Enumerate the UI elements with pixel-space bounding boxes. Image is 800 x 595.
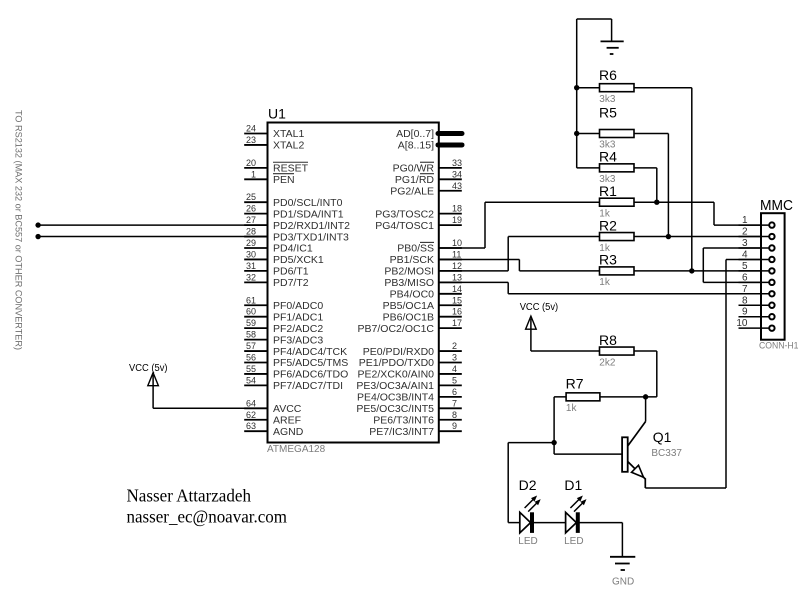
pin 55 PF6/ADC6/TDO (left): [244, 364, 348, 381]
svg-text:1k: 1k: [566, 403, 578, 414]
svg-text:AD[0..7]: AD[0..7]: [396, 128, 434, 140]
resistor R4 3k3: [599, 149, 634, 185]
wire D2 cathode to D1 anode: [533, 522, 566, 524]
svg-text:XTAL1: XTAL1: [273, 128, 304, 140]
wire R5 right to MMC pin2 net: [634, 134, 668, 237]
MMC pin 3: [739, 238, 775, 251]
svg-text:R2: R2: [599, 217, 617, 233]
svg-text:34: 34: [452, 169, 462, 179]
svg-text:10: 10: [736, 318, 748, 329]
svg-text:LED: LED: [518, 536, 537, 547]
svg-text:PF1/ADC1: PF1/ADC1: [273, 311, 323, 323]
wire: pin28 PD3 long wire to left: [38, 236, 267, 238]
svg-text:54: 54: [246, 375, 256, 385]
svg-text:28: 28: [246, 227, 256, 237]
svg-text:PG2/ALE: PG2/ALE: [390, 185, 434, 197]
pin 61 PF0/ADC0 (left): [244, 295, 323, 312]
svg-text:3: 3: [452, 353, 457, 363]
MMC pin 9: [739, 307, 775, 320]
resistor R8 2k2: [599, 332, 634, 368]
svg-text:26: 26: [246, 204, 256, 214]
svg-text:59: 59: [246, 318, 256, 328]
junction: open end PD2 wire: [35, 222, 40, 227]
pin 25 PD0/SCL/INT0 (left): [244, 192, 342, 209]
MMC pin 4: [739, 249, 775, 262]
svg-text:PF0/ADC0: PF0/ADC0: [273, 300, 323, 312]
junction: collector node R7/R8/Q1: [643, 394, 648, 399]
power VCC (5v) right: [520, 302, 559, 351]
svg-text:27: 27: [246, 215, 256, 225]
svg-text:PB4/OC0: PB4/OC0: [390, 289, 435, 301]
svg-text:2: 2: [742, 227, 748, 238]
resistor R7 1k: [566, 376, 600, 414]
pin 2 PE0/PDI/RXD0 (right): [363, 341, 462, 358]
wire R3 right to MMC pin5: [634, 270, 761, 272]
svg-text:PEN: PEN: [273, 174, 295, 186]
svg-text:PD4/IC1: PD4/IC1: [273, 243, 313, 255]
LED D2: [518, 477, 540, 547]
pin 15 PB5/OC1A (right): [383, 295, 462, 312]
wire AVCC to VCC: [153, 407, 267, 409]
pin 9 PE7/IC3/INT7 (right): [369, 421, 462, 438]
wire PB1/SCK to R3: [439, 259, 600, 270]
svg-text:61: 61: [246, 295, 256, 305]
svg-text:PE0/PDI/RXD0: PE0/PDI/RXD0: [363, 346, 434, 358]
pin 23 XTAL2 (left): [244, 135, 304, 152]
pin 33 PG0/WR (right): [393, 158, 462, 175]
wire: pin27 PD2 long wire to left: [38, 224, 267, 226]
svg-text:2: 2: [452, 341, 457, 351]
svg-text:PE2/XCK0/AIN0: PE2/XCK0/AIN0: [358, 369, 435, 381]
ground GND (bottom): [610, 557, 635, 588]
svg-text:R1: R1: [599, 183, 617, 199]
svg-text:9: 9: [742, 307, 748, 318]
svg-text:16: 16: [452, 307, 462, 317]
svg-text:Nasser Attarzadeh: Nasser Attarzadeh: [127, 486, 252, 506]
svg-text:PF4/ADC4/TCK: PF4/ADC4/TCK: [273, 346, 347, 358]
pin 11 PB1/SCK (right): [390, 249, 462, 266]
svg-text:PE4/OC3B/INT4: PE4/OC3B/INT4: [357, 392, 434, 404]
wire PB3/MISO to MMC pin7: [439, 282, 761, 293]
svg-text:PD7/T2: PD7/T2: [273, 277, 309, 289]
svg-text:AREF: AREF: [273, 414, 301, 426]
pin 27 PD2/RXD1/INT2 (left): [244, 215, 350, 232]
svg-text:60: 60: [246, 307, 256, 317]
svg-text:64: 64: [246, 398, 256, 408]
svg-text:VCC (5v): VCC (5v): [520, 302, 559, 313]
resistor R5 3k3: [599, 105, 634, 151]
svg-text:62: 62: [246, 410, 256, 420]
pin 56 PF5/ADC5/TMS (left): [244, 353, 348, 370]
svg-text:55: 55: [246, 364, 256, 374]
svg-text:15: 15: [452, 295, 462, 305]
wire MMC pin3 to pin6: [703, 248, 761, 282]
svg-text:R7: R7: [566, 376, 584, 392]
svg-text:58: 58: [246, 330, 256, 340]
pin 64 AVCC (left): [244, 398, 302, 415]
wire R7 left down to base: [554, 397, 622, 454]
resistor R3 1k: [599, 252, 634, 288]
pin 5 PE3/OC3A/AIN1 (right): [356, 375, 461, 392]
wire R6 right to MMC pin5 net: [634, 88, 692, 271]
svg-text:R3: R3: [599, 252, 617, 268]
wire R5 left: [577, 133, 600, 135]
svg-text:1: 1: [251, 169, 256, 179]
bus AD[0..7]: [396, 128, 462, 140]
svg-text:nasser_ec@noavar.com: nasser_ec@noavar.com: [127, 507, 288, 527]
svg-text:56: 56: [246, 353, 256, 363]
text author email: [127, 507, 288, 527]
svg-text:5: 5: [452, 375, 457, 385]
pin 63 AGND (left): [244, 421, 304, 438]
MMC pin 10: [736, 318, 774, 331]
bus A[8..15]: [398, 140, 462, 152]
pin 17 PB7/OC2/OC1C (right): [358, 318, 462, 335]
svg-text:R4: R4: [599, 149, 617, 165]
svg-text:32: 32: [246, 272, 256, 282]
svg-text:29: 29: [246, 238, 256, 248]
svg-text:30: 30: [246, 249, 256, 259]
svg-text:18: 18: [452, 204, 462, 214]
svg-text:VCC (5v): VCC (5v): [129, 363, 168, 374]
svg-text:CONN-H1: CONN-H1: [759, 341, 799, 352]
svg-text:14: 14: [452, 284, 462, 294]
svg-text:PE3/OC3A/AIN1: PE3/OC3A/AIN1: [356, 380, 434, 392]
wire R1 right to MMC pin1: [634, 202, 761, 225]
svg-text:4: 4: [452, 364, 457, 374]
junction: open end PD3 wire: [35, 234, 40, 239]
svg-text:8: 8: [452, 410, 457, 420]
wire D1 cathode to ground: [578, 523, 622, 557]
svg-text:3: 3: [742, 238, 748, 249]
svg-text:10: 10: [452, 238, 462, 248]
net label: TO RS2132 vertical text: [13, 110, 24, 350]
junction: GND net / R6: [574, 85, 579, 90]
svg-text:20: 20: [246, 158, 256, 168]
MMC pin 1: [739, 215, 775, 228]
svg-text:XTAL2: XTAL2: [273, 140, 304, 152]
svg-text:33: 33: [452, 158, 462, 168]
svg-text:3k3: 3k3: [599, 94, 616, 105]
pin 13 PB3/MISO (right): [384, 272, 462, 289]
svg-text:R8: R8: [599, 332, 617, 348]
pin 6 PE4/OC3B/INT4 (right): [357, 387, 462, 404]
svg-text:MMC: MMC: [760, 198, 793, 214]
svg-text:PF3/ADC3: PF3/ADC3: [273, 334, 323, 346]
junction: base/LED branch node: [551, 440, 556, 445]
resistor R6 3k3: [599, 67, 634, 105]
svg-text:U1: U1: [268, 106, 286, 122]
svg-text:PE6/T3/INT6: PE6/T3/INT6: [373, 414, 434, 426]
IC U1 ATMEGA128 box: [267, 106, 439, 456]
pin 20 RESET (left): [244, 158, 308, 175]
wire R4 right to R1 net: [634, 168, 657, 202]
svg-text:GND: GND: [612, 577, 634, 588]
svg-text:13: 13: [452, 272, 462, 282]
pin 43 PG2/ALE (right): [390, 181, 462, 198]
svg-text:1k: 1k: [599, 277, 611, 288]
svg-text:PD0/SCL/INT0: PD0/SCL/INT0: [273, 197, 343, 209]
pin 54 PF7/ADC7/TDI (left): [244, 375, 343, 392]
svg-text:5: 5: [742, 261, 748, 272]
svg-text:6: 6: [742, 272, 748, 283]
pin 19 PG4/TOSC1 (right): [375, 215, 462, 232]
pin 28 PD3/TXD1/INT3 (left): [244, 227, 349, 244]
svg-text:PE5/OC3C/INT5: PE5/OC3C/INT5: [356, 403, 434, 415]
pin 1 PEN (left): [244, 169, 294, 186]
LED D1: [564, 477, 586, 547]
svg-text:12: 12: [452, 261, 462, 271]
wire branch to D2 anode: [508, 443, 554, 523]
svg-text:8: 8: [742, 295, 748, 306]
svg-text:7: 7: [452, 398, 457, 408]
pin 4 PE2/XCK0/AIN0 (right): [358, 364, 462, 381]
svg-text:PD2/RXD1/INT2: PD2/RXD1/INT2: [273, 220, 350, 232]
svg-text:4: 4: [742, 249, 748, 260]
svg-text:LED: LED: [564, 536, 583, 547]
MMC pin 5: [739, 261, 775, 274]
svg-text:PB5/OC1A: PB5/OC1A: [383, 300, 434, 312]
svg-text:D2: D2: [519, 477, 537, 493]
MMC pin 8: [739, 295, 775, 308]
pin 7 PE5/OC3C/INT5 (right): [356, 398, 461, 415]
power VCC (5v) left at AVCC: [129, 363, 168, 408]
svg-text:31: 31: [246, 261, 256, 271]
connector MMC CONN-H1 box: [759, 198, 799, 352]
wire pullup common vertical: [576, 19, 578, 168]
pin 32 PD7/T2 (left): [244, 272, 309, 289]
svg-text:24: 24: [246, 124, 256, 134]
pin 16 PB6/OC1B (right): [383, 307, 462, 324]
svg-text:57: 57: [246, 341, 256, 351]
svg-text:43: 43: [452, 181, 462, 191]
junction: R6/R3 node: [689, 268, 694, 273]
svg-text:Q1: Q1: [653, 429, 672, 445]
pin 3 PE1/PDO/TXD0 (right): [359, 353, 462, 370]
svg-text:PB3/MISO: PB3/MISO: [384, 277, 434, 289]
svg-text:63: 63: [246, 421, 256, 431]
pin 10 PB0/SS (right): [397, 238, 462, 255]
junction: R5/R2 node: [666, 234, 671, 239]
pin 12 PB2/MOSI (right): [384, 261, 462, 278]
wire R4 left: [577, 167, 600, 169]
svg-text:PF5/ADC5/TMS: PF5/ADC5/TMS: [273, 357, 348, 369]
MMC pin 2: [739, 227, 775, 240]
svg-text:11: 11: [452, 249, 461, 259]
pin 26 PD1/SDA/INT1 (left): [244, 204, 344, 221]
wire R8 right to collector node: [634, 351, 657, 397]
junction: R4/R1 node: [654, 200, 659, 205]
resistor R2 1k: [599, 217, 634, 253]
pin 14 PB4/OC0 (right): [390, 284, 462, 301]
svg-text:1: 1: [742, 215, 748, 226]
svg-text:23: 23: [246, 135, 256, 145]
wire R6 left: [577, 87, 600, 89]
wire PB2/MOSI to R2: [439, 237, 600, 271]
svg-text:R5: R5: [599, 105, 617, 121]
svg-text:PB7/OC2/OC1C: PB7/OC2/OC1C: [358, 323, 435, 335]
ground (top, at pullups): [577, 19, 624, 54]
pin 62 AREF (left): [244, 410, 301, 427]
wire VCC to R8: [531, 350, 600, 352]
svg-text:BC337: BC337: [651, 448, 682, 459]
svg-text:PD5/XCK1: PD5/XCK1: [273, 254, 324, 266]
svg-text:D1: D1: [564, 477, 582, 493]
svg-text:R6: R6: [599, 67, 617, 83]
pin 18 PG3/TOSC2 (right): [375, 204, 462, 221]
svg-text:PD6/T1: PD6/T1: [273, 266, 309, 278]
svg-text:PD1/SDA/INT1: PD1/SDA/INT1: [273, 208, 344, 220]
svg-text:7: 7: [742, 284, 748, 295]
svg-text:A[8..15]: A[8..15]: [398, 140, 434, 152]
wire R7 right to collector node: [600, 396, 646, 398]
resistor R1 1k: [599, 183, 634, 219]
svg-text:RESET: RESET: [273, 163, 309, 175]
svg-text:17: 17: [452, 318, 462, 328]
pin 24 XTAL1 (left): [244, 124, 304, 141]
svg-text:PF2/ADC2: PF2/ADC2: [273, 323, 323, 335]
wire R2 right to MMC pin2: [634, 236, 761, 238]
junction: GND net / R5: [574, 131, 579, 136]
svg-text:TO RS2132 (MAX 232 or BC557 or: TO RS2132 (MAX 232 or BC557 or OTHER CON…: [13, 110, 24, 350]
svg-text:PG4/TOSC1: PG4/TOSC1: [375, 220, 434, 232]
pin 58 PF3/ADC3 (left): [244, 330, 323, 347]
svg-text:25: 25: [246, 192, 256, 202]
MMC pin 7: [739, 284, 775, 297]
svg-text:PB2/MOSI: PB2/MOSI: [384, 266, 434, 278]
wire MMC pin4 to Q1 emitter: [645, 259, 761, 488]
text author name: [127, 486, 252, 506]
svg-text:PG0/WR: PG0/WR: [393, 163, 435, 175]
svg-text:PB1/SCK: PB1/SCK: [390, 254, 434, 266]
svg-text:PB6/OC1B: PB6/OC1B: [383, 311, 434, 323]
svg-text:PB0/SS: PB0/SS: [397, 243, 434, 255]
svg-text:AVCC: AVCC: [273, 403, 302, 415]
pin 57 PF4/ADC4/TCK (left): [244, 341, 347, 358]
svg-text:PF6/ADC6/TDO: PF6/ADC6/TDO: [273, 369, 348, 381]
svg-text:2k2: 2k2: [599, 357, 616, 368]
svg-text:PF7/ADC7/TDI: PF7/ADC7/TDI: [273, 380, 343, 392]
svg-text:PE7/IC3/INT7: PE7/IC3/INT7: [369, 426, 434, 438]
svg-text:9: 9: [452, 421, 457, 431]
pin 60 PF1/ADC1 (left): [244, 307, 323, 324]
svg-text:ATMEGA128: ATMEGA128: [267, 444, 326, 455]
svg-text:PG3/TOSC2: PG3/TOSC2: [375, 208, 434, 220]
pin 31 PD6/T1 (left): [244, 261, 309, 278]
svg-text:PE1/PDO/TXD0: PE1/PDO/TXD0: [359, 357, 434, 369]
MMC pin 6: [739, 272, 775, 285]
svg-text:6: 6: [452, 387, 457, 397]
pin 34 PG1/RD (right): [395, 169, 462, 186]
pin 8 PE6/T3/INT6 (right): [373, 410, 462, 427]
pin 59 PF2/ADC2 (left): [244, 318, 323, 335]
svg-text:PG1/RD: PG1/RD: [395, 174, 435, 186]
pin 29 PD4/IC1 (left): [244, 238, 313, 255]
wire PB0/SS to R1: [439, 202, 600, 248]
pin 30 PD5/XCK1 (left): [244, 249, 324, 266]
transistor Q1 BC337: [622, 397, 682, 488]
svg-text:AGND: AGND: [273, 426, 304, 438]
svg-text:19: 19: [452, 215, 462, 225]
svg-text:PD3/TXD1/INT3: PD3/TXD1/INT3: [273, 231, 349, 243]
